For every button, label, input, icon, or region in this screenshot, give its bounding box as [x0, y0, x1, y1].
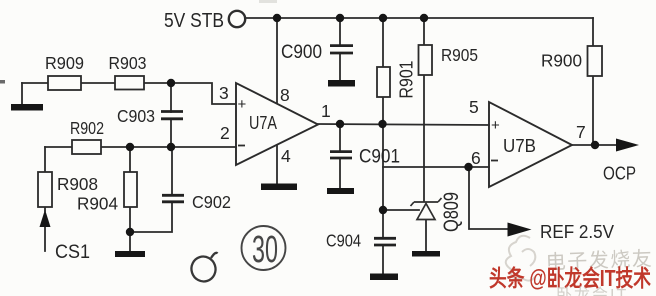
- svg-text:+: +: [238, 96, 247, 113]
- svg-text:2: 2: [220, 123, 230, 143]
- svg-text:U7B: U7B: [503, 135, 536, 156]
- svg-text:R909: R909: [45, 53, 84, 73]
- svg-text:R902: R902: [70, 118, 104, 138]
- svg-text:8: 8: [280, 85, 290, 105]
- svg-text:C904: C904: [326, 231, 361, 251]
- svg-text:C903: C903: [117, 106, 155, 126]
- svg-text:Q809: Q809: [440, 192, 463, 232]
- svg-text:C900: C900: [281, 42, 322, 63]
- svg-text:30: 30: [252, 229, 278, 271]
- svg-text:C902: C902: [192, 192, 231, 212]
- svg-text:REF 2.5V: REF 2.5V: [540, 221, 615, 242]
- svg-text:5V STB: 5V STB: [164, 9, 224, 32]
- svg-text:CS1: CS1: [55, 242, 90, 263]
- svg-text:C901: C901: [359, 147, 400, 168]
- svg-text:R904: R904: [77, 194, 118, 214]
- svg-text:R900: R900: [541, 51, 582, 71]
- svg-text:1: 1: [321, 101, 331, 121]
- svg-text:5: 5: [469, 97, 479, 117]
- svg-text:R903: R903: [109, 53, 147, 73]
- svg-text:U7A: U7A: [249, 112, 278, 133]
- svg-text:4: 4: [281, 146, 291, 166]
- svg-text:OCP: OCP: [603, 164, 636, 184]
- svg-text:7: 7: [576, 122, 586, 142]
- svg-text:3: 3: [219, 83, 229, 103]
- svg-text:R901: R901: [396, 61, 417, 99]
- svg-text:6: 6: [471, 148, 481, 168]
- svg-text:+: +: [491, 117, 500, 134]
- svg-text:R905: R905: [441, 45, 478, 65]
- svg-text:R908: R908: [57, 174, 98, 194]
- svg-text:卧龙会IT: 卧龙会IT: [556, 286, 628, 296]
